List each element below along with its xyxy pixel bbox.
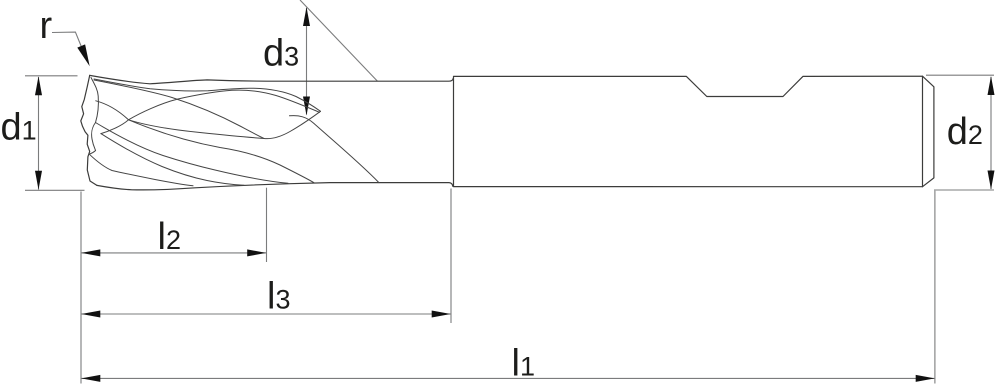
shank outline [454,76,934,187]
d1 dimension line [38,77,40,190]
d2 arrow up [988,76,995,95]
d3 arrow down [303,97,310,116]
helix from apex to neck bottom [129,120,314,183]
end tooth corner line lower extension [89,123,95,155]
l2 arrow left [81,249,100,256]
d1 bottom extension line [25,189,85,191]
l3 arrow left [81,311,100,318]
gentle helix from apex to lens low point [129,120,265,139]
end tooth beak top edge [96,101,129,120]
cutter top silhouette and neck top line [90,75,454,83]
l1 arrow right [916,375,935,382]
l1 arrow left [81,375,100,382]
d2 arrow down [988,171,995,190]
d3 dimension line [306,8,308,115]
r leader arrowhead [77,44,89,66]
shank end chamfer edge [922,76,924,187]
l3 arrow right [432,311,451,318]
bottom tooth top edge [89,154,193,186]
end tooth beak bottom edge [101,120,129,134]
svg-text:r: r [40,5,53,47]
d2 bottom extension line [934,189,994,191]
long helix Q from beak bottom junction [101,134,244,186]
d1 top extension line [25,75,78,77]
l2 right extension line [266,188,268,262]
cutter left end face profile [81,75,97,185]
l2 arrow right [247,249,266,256]
r leader line [52,32,82,47]
l3 dimension line [82,313,451,315]
end tooth corner line [91,78,98,123]
long helix P from corner-line bottom [96,123,289,184]
neck relief lens top edge [94,79,321,111]
l1 dimension line [82,377,935,379]
cutter bottom silhouette [97,183,453,190]
l1 right extension line [934,191,936,384]
lens riser edge from beak apex [129,90,320,120]
d1 arrow down [35,171,42,190]
l3 right extension line [450,189,452,324]
helix edge descending to neck bottom [290,116,379,183]
left extension line for lengths [80,192,82,384]
d3 oblique extension line [300,0,378,81]
lens bottom-left helix edge from corner [94,80,264,139]
d2 top extension line [926,74,994,76]
lens tip bottom edge [264,111,321,138]
l2 dimension line [82,252,267,254]
d1 arrow up [35,76,42,95]
d3 arrow up [303,7,310,26]
d2 dimension line [990,77,992,189]
